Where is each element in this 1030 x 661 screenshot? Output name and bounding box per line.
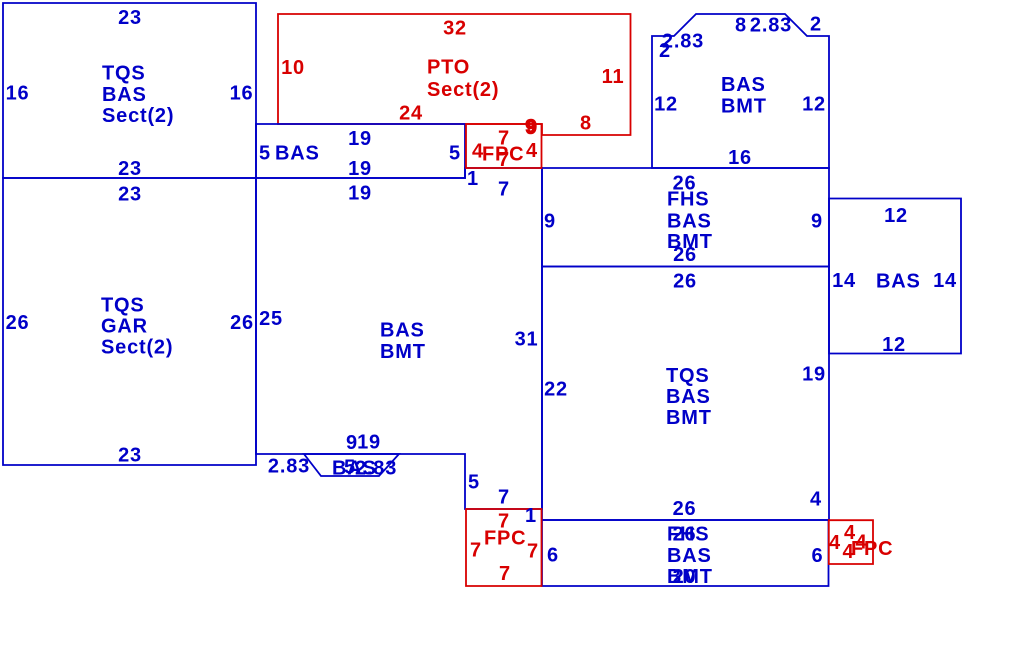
svg-text:9: 9 [526,116,538,138]
lower-left FPC porch rect [466,509,542,586]
svg-text:19: 19 [348,158,372,180]
svg-text:6: 6 [547,544,559,566]
svg-text:BMT: BMT [721,95,767,117]
svg-text:26: 26 [6,312,30,334]
svg-text:TQS: TQS [666,365,710,387]
svg-text:25: 25 [259,308,283,330]
svg-text:FHS: FHS [667,188,709,210]
right BAS rect [829,199,961,354]
svg-text:2: 2 [810,13,822,35]
svg-text:Sect(2): Sect(2) [427,79,499,101]
upper FPC porch rect [466,124,542,168]
svg-text:19: 19 [357,431,381,453]
main BAS BMT area outline [256,168,542,509]
PTO Sect(2) patio outline [278,14,631,135]
svg-text:BAS: BAS [380,319,425,341]
svg-text:2.83: 2.83 [750,14,792,36]
svg-text:12: 12 [654,93,678,115]
svg-text:5: 5 [449,142,461,164]
svg-text:24: 24 [399,102,423,124]
svg-text:2.83: 2.83 [268,455,310,477]
svg-text:7: 7 [470,539,482,561]
5 BAS porch outline [256,124,465,178]
svg-text:10: 10 [281,57,305,79]
svg-text:Sect(2): Sect(2) [102,105,174,127]
svg-text:BAS: BAS [667,545,712,567]
svg-text:16: 16 [728,147,752,169]
svg-text:TQS: TQS [101,294,145,316]
svg-text:16: 16 [6,82,30,104]
svg-text:4: 4 [829,532,841,554]
svg-text:14: 14 [832,270,856,292]
svg-text:26: 26 [230,312,254,334]
svg-text:7: 7 [527,540,539,562]
TQS BAS BMT rect [542,267,829,521]
svg-text:PTO: PTO [427,56,470,78]
svg-text:16: 16 [230,82,254,104]
svg-text:20: 20 [673,566,697,588]
svg-text:19: 19 [348,128,372,150]
bay window trapezoid [304,454,399,476]
svg-text:2.83: 2.83 [355,457,397,479]
svg-text:BAS: BAS [275,142,320,164]
svg-text:2: 2 [659,40,671,62]
svg-text:BAS: BAS [102,84,147,106]
svg-text:11: 11 [602,66,625,88]
svg-text:BAS: BAS [666,386,711,408]
FHS BAS BMT upper rect [542,168,829,267]
svg-text:1: 1 [525,505,537,527]
svg-text:19: 19 [348,182,372,204]
svg-text:BAS: BAS [721,74,766,96]
bottom FHS BAS BMT rect [542,520,829,586]
svg-text:BMT: BMT [380,341,426,363]
svg-text:FPC: FPC [851,538,893,560]
svg-text:5: 5 [259,142,271,164]
svg-text:1: 1 [467,168,479,190]
svg-text:Sect(2): Sect(2) [101,336,173,358]
svg-text:GAR: GAR [101,315,148,337]
svg-text:9: 9 [544,210,556,232]
svg-text:23: 23 [118,158,142,180]
svg-text:26: 26 [673,498,697,520]
svg-text:23: 23 [118,7,142,29]
TQS GAR Sect(2) unit outline [3,178,256,465]
svg-text:BMT: BMT [666,407,712,429]
svg-text:5: 5 [468,471,480,493]
svg-text:12: 12 [884,205,908,227]
svg-text:26: 26 [673,270,697,292]
svg-text:19: 19 [802,363,826,385]
svg-text:BAS: BAS [667,210,712,232]
svg-text:4: 4 [810,488,822,510]
svg-text:12: 12 [882,334,906,356]
svg-text:12: 12 [802,93,826,115]
svg-text:8: 8 [580,112,592,134]
svg-text:FPC: FPC [484,527,526,549]
svg-text:31: 31 [515,328,539,350]
svg-text:7: 7 [499,563,511,585]
svg-text:BAS: BAS [876,270,921,292]
svg-text:32: 32 [443,17,467,39]
TQS BAS Sect(2) unit outline [3,3,256,178]
svg-text:26: 26 [673,523,697,545]
svg-text:26: 26 [673,244,697,266]
svg-text:23: 23 [118,183,142,205]
svg-text:6: 6 [812,545,824,567]
svg-text:7: 7 [498,178,510,200]
lower-right FPC porch rect [829,520,873,564]
svg-text:7: 7 [498,486,510,508]
svg-text:TQS: TQS [102,62,146,84]
svg-text:14: 14 [933,270,957,292]
svg-text:8: 8 [735,14,747,36]
svg-text:22: 22 [544,378,568,400]
upper-right BAS BMT outline [652,14,829,168]
svg-text:23: 23 [118,444,142,466]
svg-text:4: 4 [526,140,538,162]
svg-text:9: 9 [811,210,823,232]
svg-text:7: 7 [498,149,510,171]
